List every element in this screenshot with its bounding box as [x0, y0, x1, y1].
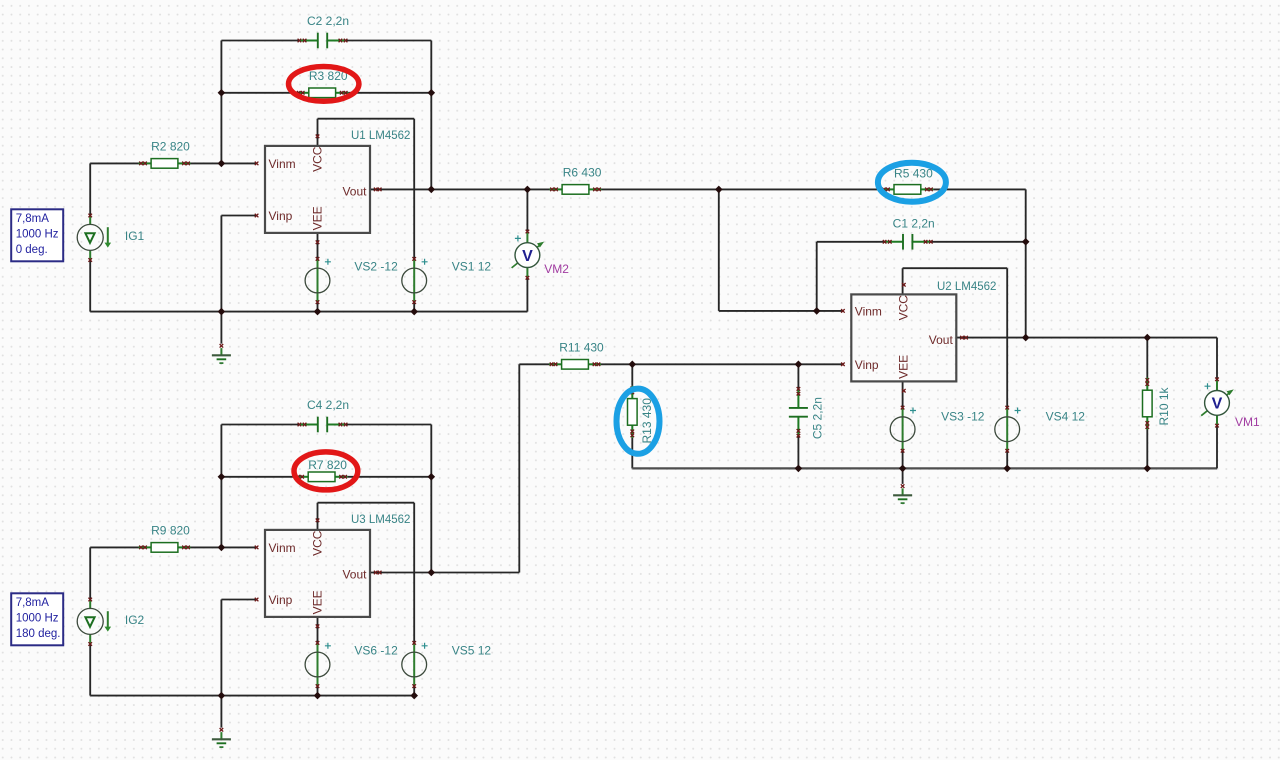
note box IG2 parameters: [11, 593, 63, 645]
svg-text:VS4 12: VS4 12: [1046, 410, 1086, 424]
svg-text:U2 LM4562: U2 LM4562: [937, 281, 996, 293]
voltage source VS6: [305, 641, 331, 688]
wire VS3 to rail: [902, 451, 904, 469]
wire IG2 top lead: [89, 547, 91, 599]
wire R13 vertical top: [631, 364, 633, 386]
svg-text:R5 430: R5 430: [894, 166, 933, 180]
svg-text:7,8mA: 7,8mA: [16, 213, 50, 225]
wire R3 row right: [348, 92, 431, 94]
svg-text:IG2: IG2: [125, 613, 145, 627]
wire C4 row right: [347, 424, 432, 426]
resistor R5: [881, 185, 933, 195]
wire VM1 to rail: [1216, 416, 1218, 468]
note box IG1 parameters: [11, 209, 63, 261]
wire J2 vertical: [718, 189, 720, 311]
label C1 2,2n: [893, 216, 935, 230]
resistor R3: [296, 88, 348, 98]
junction R11-C5: [795, 361, 803, 369]
voltmeter VM2: [512, 230, 545, 280]
label R10 1k: [1157, 386, 1171, 425]
label VS3 -12: [941, 410, 985, 424]
junction rail2 VS4: [1003, 465, 1011, 473]
svg-text:R2 820: R2 820: [151, 140, 190, 154]
junction R7-right: [428, 473, 436, 481]
wire IG2 bottom lead: [89, 644, 91, 696]
wire R10 top lead: [1146, 338, 1148, 378]
voltage source VS3: [890, 406, 916, 453]
svg-text:VCC: VCC: [897, 295, 911, 321]
wire Vinm3 row left: [90, 546, 138, 548]
label R7 820: [308, 458, 347, 472]
svg-text:C2 2,2n: C2 2,2n: [307, 14, 349, 28]
label C2 2,2n: [307, 14, 349, 28]
label R2 820: [151, 140, 190, 154]
label VS4 12: [1046, 410, 1086, 424]
wire Vinm3 row right: [191, 546, 257, 548]
ground bottom-left: [212, 696, 231, 748]
wire Vinp ground vertical: [220, 216, 222, 312]
svg-text:V: V: [522, 248, 533, 265]
svg-text:Vinp: Vinp: [269, 209, 293, 223]
svg-text:R7 820: R7 820: [308, 458, 347, 472]
svg-text:IG1: IG1: [125, 229, 145, 243]
wire U1 VEE down: [317, 233, 319, 259]
wire Vinp stub: [221, 215, 256, 217]
resistor R11: [549, 360, 601, 370]
voltage source VS5: [402, 641, 428, 688]
junction Vout-VM2: [524, 186, 532, 194]
wire C2 row left: [221, 40, 298, 42]
wire VS6 to rail: [317, 686, 319, 696]
resistor R6: [550, 185, 602, 195]
label VS2 -12: [354, 260, 398, 274]
svg-text:VS6 -12: VS6 -12: [354, 644, 398, 658]
junction Vout3-feedback: [428, 569, 436, 577]
junction rail3 VS5: [410, 692, 418, 700]
op-amp U3: [255, 519, 382, 629]
svg-text:VEE: VEE: [310, 590, 324, 614]
label C5 2,2n: [811, 397, 825, 439]
wire U3 VCC route horizontal: [318, 502, 415, 504]
svg-text:1000 Hz: 1000 Hz: [16, 612, 59, 624]
wire U2 Vout row: [956, 337, 1217, 339]
resistor R9: [139, 543, 191, 553]
svg-text:R9 820: R9 820: [151, 524, 190, 538]
label U1 LM4562: [351, 130, 410, 142]
junction R3-left: [218, 89, 226, 97]
current source IG2: [77, 598, 111, 646]
label IG2: [125, 613, 145, 627]
svg-text:1000 Hz: 1000 Hz: [16, 228, 59, 240]
wire Vinm row left: [90, 162, 138, 164]
label U3 LM4562: [351, 514, 410, 526]
label R11 430: [559, 341, 604, 355]
wire U2 VEE down: [902, 381, 904, 407]
voltage source VS1: [402, 257, 428, 304]
label R5 430: [894, 166, 933, 180]
wire VM2 drop: [526, 189, 528, 231]
wire C1 left vertical: [816, 242, 818, 311]
annotation blue ellipse around R5: [878, 163, 946, 202]
junction rail2 C5: [795, 465, 803, 473]
svg-text:VM1: VM1: [1235, 415, 1260, 429]
wire VS1 drop vertical: [413, 119, 415, 259]
wire Vinp3 ground vertical: [220, 600, 222, 696]
svg-text:Vout: Vout: [929, 333, 954, 347]
svg-text:V: V: [1212, 396, 1223, 413]
junction C1-right: [1022, 238, 1030, 246]
junction Vout-J2: [715, 186, 723, 194]
svg-text:Vinm: Vinm: [269, 541, 296, 555]
junction rail2 VS3: [899, 465, 907, 473]
wire VS5 to rail: [413, 686, 415, 696]
wire R3 row left: [221, 92, 296, 94]
resistor R7: [296, 472, 348, 482]
wire bottom rail top-left: [90, 311, 527, 313]
label R9 820: [151, 524, 190, 538]
svg-text:VCC: VCC: [310, 146, 324, 172]
svg-text:U1 LM4562: U1 LM4562: [351, 130, 410, 142]
svg-text:R10 1k: R10 1k: [1157, 386, 1171, 425]
wire right feedback vertical: [430, 41, 432, 190]
wire VM2 to rail: [526, 278, 528, 312]
wire R7 row right: [348, 476, 432, 478]
wire left feedback vertical 2: [220, 425, 222, 548]
svg-text:VS3 -12: VS3 -12: [941, 410, 985, 424]
svg-text:VEE: VEE: [310, 206, 324, 230]
svg-text:R13 430: R13 430: [640, 398, 654, 444]
svg-text:C5 2,2n: C5 2,2n: [811, 397, 825, 439]
ground middle: [893, 468, 912, 503]
svg-text:Vinp: Vinp: [855, 358, 879, 372]
svg-text:U3 LM4562: U3 LM4562: [351, 514, 410, 526]
label VM2: [544, 262, 569, 276]
junction rail3 VS6: [314, 692, 322, 700]
wire IG1 bottom lead: [89, 260, 91, 312]
wire R11 row to C5: [601, 363, 843, 365]
svg-text:VM2: VM2: [544, 262, 569, 276]
annotation red ellipse around R7: [294, 452, 358, 490]
annotation red ellipse around R3: [289, 67, 359, 102]
voltmeter VM1: [1201, 378, 1234, 428]
wire Vinm row right: [191, 162, 257, 164]
label C4 2,2n: [307, 398, 349, 412]
wire U3 VCC up: [317, 503, 319, 530]
svg-text:180 deg.: 180 deg.: [16, 628, 61, 640]
wire Vout row segment 1: [370, 188, 550, 190]
wire right vertical R5-C1-Vout: [1025, 189, 1027, 337]
svg-text:Vinp: Vinp: [269, 593, 293, 607]
wire Vout row segment 3: [933, 188, 1025, 190]
capacitor C1: [883, 234, 933, 250]
voltage source VS4: [995, 406, 1021, 453]
svg-text:C1 2,2n: C1 2,2n: [893, 216, 935, 230]
op-amp U1: [255, 135, 382, 245]
capacitor C2: [298, 33, 348, 49]
wire bottom rail: [90, 695, 414, 697]
label IG1: [125, 229, 145, 243]
wire VS2 to rail: [317, 302, 319, 312]
op-amp U2: [841, 283, 968, 393]
wire R11 row left corner: [519, 363, 549, 365]
label U2 LM4562: [937, 281, 996, 293]
wire U3 Vout row: [370, 572, 519, 574]
wire R10 bottom lead: [1146, 430, 1148, 469]
junction Vinm-left: [218, 160, 226, 168]
resistor R2: [139, 159, 191, 169]
junction Vout2-R10: [1144, 334, 1152, 342]
wire Vinp3 stub: [221, 599, 256, 601]
voltage source VS2: [305, 257, 331, 304]
svg-text:Vinm: Vinm: [855, 305, 882, 319]
wire VS4 drop: [1006, 268, 1008, 407]
wire corner vertical to U3 Vout: [518, 364, 520, 572]
wire U3 VEE down: [317, 617, 319, 643]
wire right feedback vertical 2: [430, 425, 432, 573]
wire mid rail: [632, 467, 1217, 469]
junction rail3 ground: [218, 692, 226, 700]
wire VM1 drop: [1216, 338, 1218, 390]
current source IG1: [77, 214, 111, 262]
resistor R10 vertical: [1143, 378, 1153, 430]
wire U2 Vinm row: [719, 310, 843, 312]
wire VS1 to rail: [413, 302, 415, 312]
svg-text:VS1 12: VS1 12: [452, 260, 492, 274]
label R6 430: [563, 166, 602, 180]
junction rail2 R10: [1144, 465, 1152, 473]
junction C1-Vinm: [813, 307, 821, 315]
wire left feedback vertical: [220, 41, 222, 164]
junction rail VS2: [314, 308, 322, 316]
junction R3-right: [428, 89, 436, 97]
junction R7-left: [218, 473, 226, 481]
label VS5 12: [452, 644, 492, 658]
wire R13 vertical bottom: [631, 438, 633, 469]
wire IG1 top lead: [89, 163, 91, 215]
wire C4 row left: [221, 424, 298, 426]
junction Vinm3-left: [218, 544, 226, 552]
wire C2 row right: [347, 40, 432, 42]
capacitor C4: [298, 417, 348, 433]
junction R11-R13: [629, 361, 637, 369]
wire R7 row left: [221, 476, 295, 478]
svg-text:C4 2,2n: C4 2,2n: [307, 398, 349, 412]
wire VS5 drop vertical: [413, 503, 415, 643]
junction Vout-feedback: [428, 186, 436, 194]
capacitor C5 vertical: [789, 387, 808, 437]
svg-text:7,8mA: 7,8mA: [16, 597, 50, 609]
wire C5 vertical bottom: [797, 436, 799, 468]
label VS1 12: [452, 260, 492, 274]
junction rail VS1: [410, 308, 418, 316]
annotation blue ellipse around R13: [617, 389, 660, 454]
wire C1 right lead: [932, 241, 1026, 243]
junction Vout2-right vertical: [1022, 334, 1030, 342]
svg-text:VEE: VEE: [897, 355, 911, 379]
svg-text:R11 430: R11 430: [559, 341, 604, 355]
svg-text:VS2 -12: VS2 -12: [354, 260, 398, 274]
ground top-left: [212, 312, 231, 364]
wire C5 vertical top: [797, 364, 799, 388]
svg-text:VS5 12: VS5 12: [452, 644, 492, 658]
svg-text:Vinm: Vinm: [269, 157, 296, 171]
wire VS4 to rail: [1006, 451, 1008, 469]
svg-text:0 deg.: 0 deg.: [16, 244, 48, 256]
wire U1 VCC route horizontal: [318, 118, 415, 120]
wire C1 left lead: [817, 241, 884, 243]
label VS6 -12: [354, 644, 398, 658]
svg-text:Vout: Vout: [342, 185, 367, 199]
label R3 820: [309, 69, 348, 83]
wire U2 VCC up: [902, 268, 904, 294]
label VM1: [1235, 415, 1260, 429]
resistor R13 vertical: [628, 386, 638, 438]
junction rail ground: [218, 308, 226, 316]
svg-text:Vout: Vout: [342, 568, 367, 582]
wire U1 VCC up: [317, 119, 319, 146]
wire U2 VCC route: [903, 267, 1008, 269]
label R13 430: [640, 398, 654, 444]
svg-text:R6 430: R6 430: [563, 166, 602, 180]
wire Vout row segment 2: [602, 188, 882, 190]
svg-text:VCC: VCC: [310, 530, 324, 556]
